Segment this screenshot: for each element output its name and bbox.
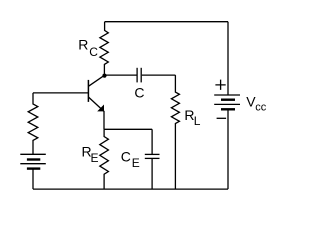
wire bottom rail (33, 188, 228, 190)
resistor R1 (base bias) (28, 93, 38, 154)
capacitor CE (bypass) (145, 154, 160, 158)
resistor RL (171, 75, 179, 189)
wire Vcc bottom lead (227, 110, 229, 189)
svg-text:E: E (91, 151, 99, 165)
wire Vcc top lead (227, 22, 229, 95)
svg-text:C: C (134, 85, 144, 101)
wire base lead (33, 92, 88, 94)
transistor Q1 base bar (87, 80, 89, 102)
capacitor C (coupling) (137, 68, 141, 83)
wire emitter lead (103, 111, 105, 129)
label - (Vcc polarity) (217, 117, 227, 119)
svg-text:cc: cc (255, 102, 267, 114)
transistor Q1 collector stroke (88, 75, 104, 86)
transistor Q1 emitter arrow (97, 105, 104, 112)
battery V1 (Vcc supply) (214, 95, 240, 109)
resistor RC (100, 22, 108, 75)
svg-text:C: C (121, 149, 131, 165)
wire node to coupling capacitor (105, 74, 137, 76)
svg-text:R: R (78, 36, 88, 52)
battery V2 (base bias source) (20, 154, 46, 168)
wire capacitor to RL (142, 74, 176, 76)
svg-text:L: L (194, 114, 201, 128)
wire CE bottom lead (151, 158, 153, 189)
resistor RE (100, 129, 109, 189)
svg-text:E: E (132, 156, 140, 170)
wire emitter to CE (104, 128, 152, 130)
label + (Vcc polarity) (215, 80, 225, 90)
wire bias battery bottom lead (32, 169, 34, 190)
svg-text:C: C (89, 45, 98, 59)
wire CE top lead (151, 129, 153, 154)
transistor Q1 emitter stroke (88, 97, 104, 111)
wire top rail (105, 21, 228, 23)
node collector junction dot (102, 74, 106, 78)
